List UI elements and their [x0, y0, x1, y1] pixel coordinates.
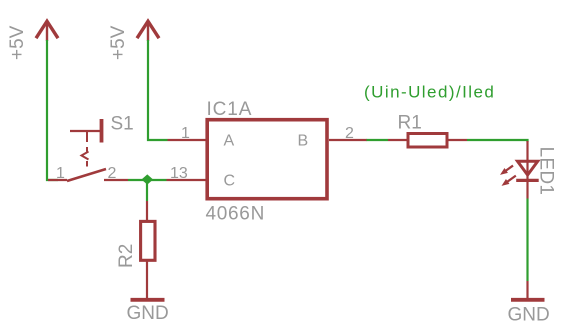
- svg-text:LED1: LED1: [536, 147, 557, 196]
- wire LED1 to GND2: [526, 199, 528, 282]
- svg-text:GND: GND: [508, 305, 550, 326]
- op IC1A 4066N: [167, 99, 368, 225]
- svg-text:R1: R1: [398, 113, 422, 134]
- ground GND1: [127, 300, 169, 324]
- junction node: [142, 174, 154, 184]
- svg-text:2: 2: [108, 165, 117, 182]
- svg-text:S1: S1: [111, 114, 134, 135]
- svg-text:+5V: +5V: [108, 25, 129, 60]
- switch S1: [48, 114, 134, 183]
- resistor R1: [388, 113, 467, 148]
- svg-text:IC1A: IC1A: [207, 99, 253, 120]
- svg-text:1: 1: [181, 125, 190, 142]
- svg-text:4066N: 4066N: [206, 204, 266, 225]
- svg-text:GND: GND: [127, 303, 169, 324]
- ground GND2: [508, 281, 550, 326]
- svg-text:C: C: [224, 173, 236, 190]
- svg-text:B: B: [298, 133, 309, 150]
- svg-text:R2: R2: [116, 244, 137, 268]
- svg-text:1: 1: [56, 165, 65, 182]
- supply +5V P2: [108, 21, 159, 60]
- svg-text:+5V: +5V: [7, 25, 28, 60]
- wire IC pin2 to R1: [367, 139, 389, 141]
- diode LED1: [498, 141, 556, 199]
- wire +5V P2 to IC pin1: [148, 40, 168, 140]
- svg-text:(Uin-Uled)/Iled: (Uin-Uled)/Iled: [364, 83, 495, 102]
- wire switch pin2 to IC pin13: [128, 179, 167, 181]
- svg-text:2: 2: [345, 125, 354, 142]
- resistor R2: [116, 201, 155, 299]
- wire junction to R2: [146, 180, 148, 201]
- svg-text:A: A: [224, 133, 235, 150]
- wire R1 to LED1: [467, 140, 528, 142]
- svg-text:13: 13: [170, 165, 188, 182]
- supply +5V P1: [7, 21, 58, 60]
- wire +5V P1 to switch pin1: [47, 40, 58, 180]
